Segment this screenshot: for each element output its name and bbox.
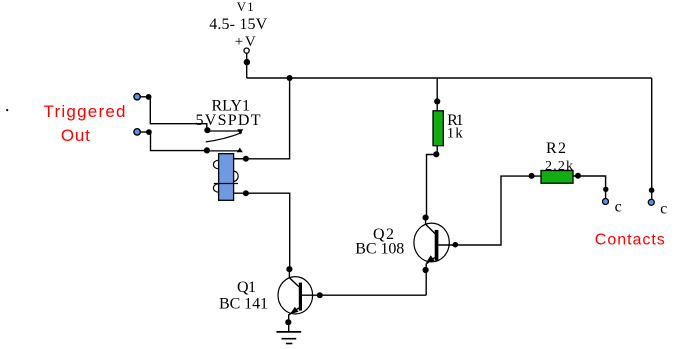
junction node rail/coil bbox=[287, 75, 293, 81]
pin dot T1 bbox=[146, 94, 152, 100]
resistor R1 branch wire bbox=[436, 78, 438, 111]
wire Q1 emitter lead bbox=[289, 308, 299, 332]
pin dot R2 left bbox=[529, 173, 535, 179]
pin dot coil top bbox=[243, 156, 249, 162]
stray mark bbox=[6, 109, 8, 111]
relay NC arrowhead bbox=[237, 129, 243, 134]
pin dot R2 right bbox=[575, 173, 581, 179]
pin dot R1 top bbox=[434, 98, 440, 104]
terminal +V open circle bbox=[244, 48, 249, 53]
wire rail right drop to contact bbox=[651, 78, 653, 199]
terminal contact left bbox=[603, 199, 609, 205]
svg-text:Contacts: Contacts bbox=[595, 231, 665, 248]
svg-text:Out: Out bbox=[61, 126, 90, 145]
resistor R1 bbox=[433, 111, 443, 146]
pin dot Q1 base bbox=[317, 292, 323, 298]
svg-text:Q1: Q1 bbox=[237, 279, 256, 296]
pin dot contact left bbox=[603, 187, 608, 192]
wire T1 stub bbox=[141, 96, 148, 98]
transistor Q1 emitter arrow bbox=[290, 307, 299, 314]
relay coil loop left upper bbox=[213, 160, 218, 169]
relay switch blade bbox=[206, 133, 242, 142]
svg-text:BC 141: BC 141 bbox=[219, 296, 268, 313]
svg-text:Triggered: Triggered bbox=[44, 102, 126, 121]
resistor R2 bbox=[541, 171, 573, 184]
pin dot contact right bbox=[649, 187, 655, 193]
terminal contact right bbox=[648, 199, 654, 205]
relay switch: node common bbox=[204, 147, 210, 153]
wire top rail bbox=[247, 77, 652, 79]
transistor Q2 body bbox=[414, 223, 449, 262]
relay coil crossing line bbox=[214, 183, 238, 185]
svg-text:1k: 1k bbox=[447, 126, 464, 142]
transistor Q1 base bar bbox=[299, 283, 302, 311]
wire coil bottom pin to Q1 collector bbox=[234, 193, 290, 269]
relay coil body bbox=[219, 154, 234, 201]
transistor Q1 body bbox=[278, 277, 313, 314]
svg-text:4.5- 15V: 4.5- 15V bbox=[209, 16, 267, 33]
pin dot T2 bbox=[146, 129, 152, 135]
wire R1 bottom to Q2 collector bbox=[427, 146, 438, 218]
relay RLY1 switch: node NC bbox=[204, 127, 210, 133]
wire T2 to switch common bbox=[149, 132, 206, 150]
wire Q2 base line bbox=[438, 176, 541, 245]
pin dot Q1 collector bbox=[286, 266, 292, 272]
svg-text:c: c bbox=[660, 200, 667, 217]
svg-text:+V: +V bbox=[235, 34, 256, 50]
wire R2 to contact bbox=[573, 176, 606, 199]
svg-text:c: c bbox=[615, 199, 622, 216]
wire T2 stub bbox=[141, 131, 148, 133]
pin dot Q2 emitter bbox=[423, 267, 429, 273]
wire Q1 collector lead bbox=[289, 269, 299, 287]
svg-text:V1: V1 bbox=[237, 0, 254, 14]
wire T1 to switch NC bbox=[149, 97, 207, 130]
wire Q1 base line to Q2 emitter bbox=[302, 294, 426, 296]
wire NC contact line bbox=[207, 130, 240, 132]
svg-text:R2: R2 bbox=[546, 140, 566, 157]
relay NO arrowhead bbox=[237, 148, 243, 153]
pin dot Q2 base bbox=[453, 242, 459, 248]
wire NO contact line bbox=[207, 150, 239, 152]
pin dot R1 bottom bbox=[433, 151, 439, 157]
pin dot V1 bbox=[244, 59, 250, 65]
wire +V drop bbox=[246, 53, 248, 78]
transistor Q2 base bar bbox=[435, 230, 439, 261]
pin dot Q1 emitter bbox=[285, 319, 291, 325]
terminal T1 bbox=[134, 94, 140, 100]
wire rail to coil top bbox=[234, 78, 290, 159]
wire Q2 emitter lead bbox=[426, 258, 435, 296]
ground bbox=[276, 332, 301, 344]
wire Q2 collector lead bbox=[426, 218, 436, 234]
svg-text:BC 108: BC 108 bbox=[355, 240, 404, 257]
relay coil loop left lower bbox=[213, 184, 218, 192]
pin dot Q2 collector bbox=[423, 215, 429, 221]
terminal T2 bbox=[134, 129, 140, 135]
transistor Q2 emitter arrow bbox=[426, 255, 435, 262]
pin dot coil bottom bbox=[243, 190, 249, 196]
svg-text:2.2k: 2.2k bbox=[545, 159, 573, 174]
relay coil loop right bbox=[234, 171, 239, 181]
svg-text:5VSPDT: 5VSPDT bbox=[196, 112, 261, 129]
wire coil top pin bbox=[234, 158, 243, 160]
